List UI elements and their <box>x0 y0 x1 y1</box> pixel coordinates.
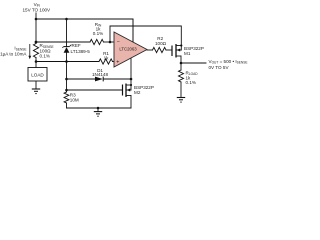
svg-text:LOAD: LOAD <box>31 72 44 77</box>
svg-text:1k: 1k <box>104 56 110 61</box>
svg-text:+: + <box>116 60 119 66</box>
svg-text:0.1%: 0.1% <box>186 80 196 85</box>
svg-text:LT1389-5: LT1389-5 <box>71 49 91 54</box>
svg-text:0.1%: 0.1% <box>40 54 50 59</box>
svg-text:1µA to 10mA: 1µA to 10mA <box>0 52 27 57</box>
svg-text:10M: 10M <box>70 97 79 102</box>
svg-text:15V TO 100V: 15V TO 100V <box>22 7 51 12</box>
svg-text:100Ω: 100Ω <box>155 41 167 46</box>
svg-text:VOUT = 500 • ISENSE: VOUT = 500 • ISENSE <box>209 59 248 65</box>
svg-text:LTC2063: LTC2063 <box>119 47 137 52</box>
svg-text:−: − <box>117 40 120 46</box>
svg-text:0.1%: 0.1% <box>93 31 103 36</box>
svg-text:M1: M1 <box>184 51 191 56</box>
svg-text:M2: M2 <box>134 90 141 95</box>
svg-text:REF: REF <box>72 43 81 48</box>
svg-text:1N4148: 1N4148 <box>92 72 109 77</box>
svg-text:0V TO 5V: 0V TO 5V <box>209 65 230 70</box>
svg-text:ISENSE: ISENSE <box>14 46 26 52</box>
